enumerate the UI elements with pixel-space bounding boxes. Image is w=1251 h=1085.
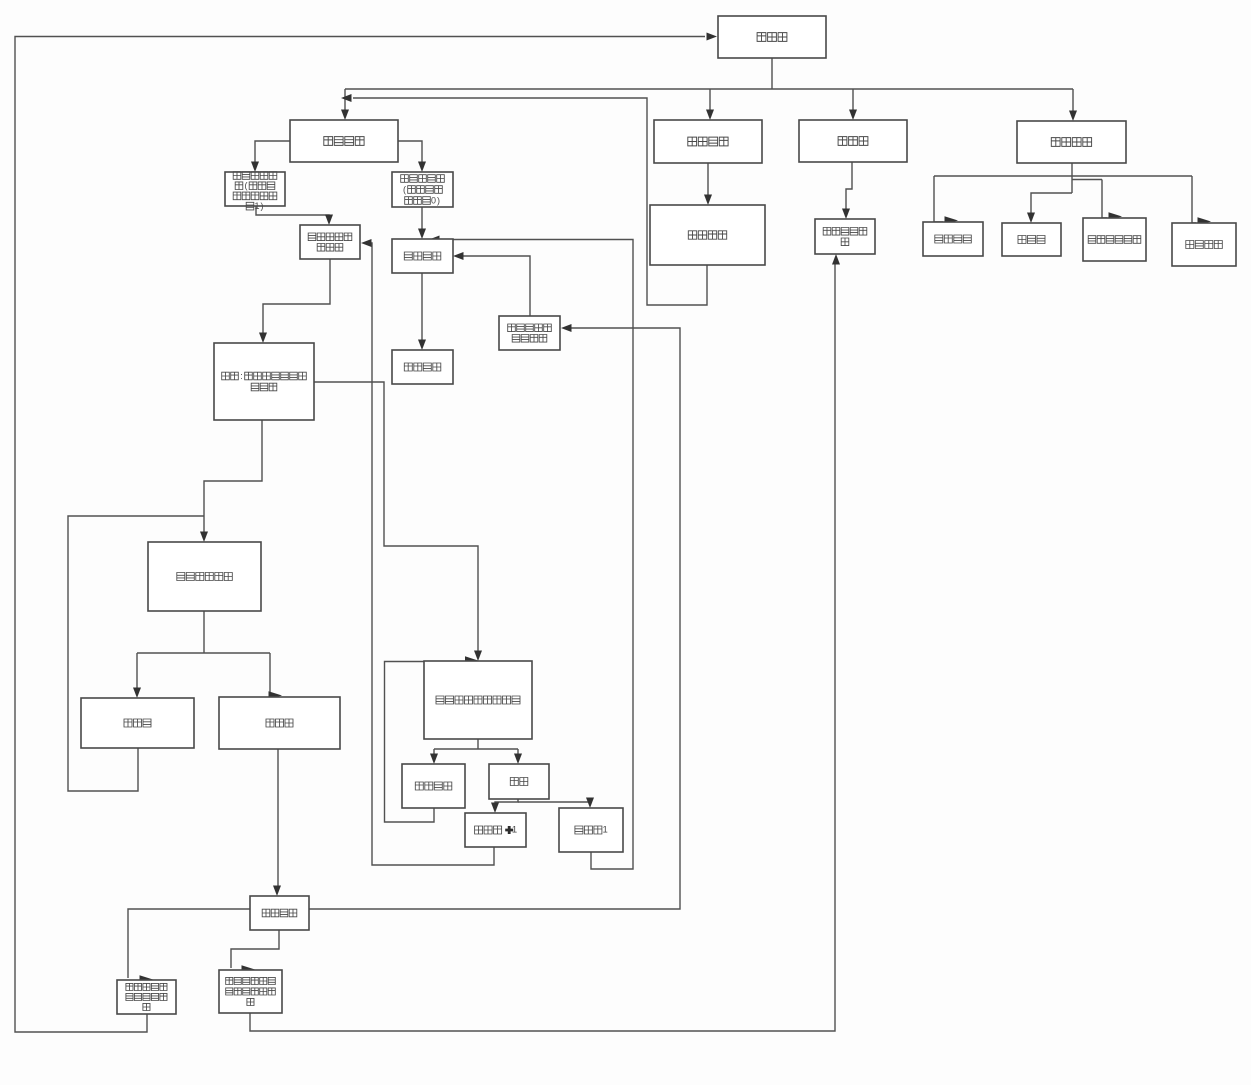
wire 读取分数->显示得分 [128, 909, 250, 984]
box 判断是否碰撞 [148, 542, 261, 611]
box 显示得分和历史最高纪录 [117, 980, 176, 1014]
box 判断食物是否还存在 [424, 661, 532, 739]
box 继续游戏 [654, 120, 762, 163]
wire 设置选项 stem [1071, 163, 1073, 193]
wire ->排行榜 [849, 89, 857, 120]
wire 若吃->分数加1 [518, 798, 594, 809]
wire 主菜单 bottom stem [771, 58, 773, 89]
wire 分数加1->统计分数 loop [429, 236, 633, 870]
box 一直通过键盘判断移动方向 [214, 343, 314, 420]
wire 若没有吃->判断食物 loop [385, 656, 479, 822]
box 排行榜 [799, 120, 907, 162]
wire 统计分数->显示分数 [418, 273, 426, 350]
wire 终止统计->统计分数 [453, 252, 530, 316]
wire 统计蛇长度和位置->一直判断方向 [259, 259, 330, 343]
wire 若碰撞->读取分数 [273, 749, 281, 896]
wire 若没有->判断是否碰撞 loop [68, 516, 204, 791]
wire 开始游戏->初始化蛇长度 [251, 141, 290, 172]
wire 开始游戏->初始化分数 [398, 141, 426, 172]
wire settings rail lower [1072, 179, 1102, 181]
wire ->蛇皮肤 [1027, 193, 1072, 223]
box 主菜单 [718, 16, 826, 58]
box 开始游戏 [290, 120, 398, 162]
wire 初始化分数->统计分数 [418, 207, 426, 239]
wire ->地图切换 [1192, 176, 1211, 226]
box 显示最高纪录 [815, 219, 875, 254]
svg-text:): ) [261, 201, 264, 211]
wire 若吃->蛇长度加1 [491, 799, 518, 813]
wire 显示得分->主菜单 big loop [15, 33, 717, 1033]
wire 排行榜->显示最高纪录 [842, 162, 852, 219]
wire ->游戏难易程度 [1102, 180, 1122, 221]
svg-text:0: 0 [431, 196, 436, 206]
box 若没有 [81, 698, 194, 748]
svg-text:): ) [437, 196, 440, 206]
wire 读取分数->和最高纪录比较 [231, 930, 279, 974]
svg-text:(: ( [245, 181, 248, 191]
svg-text:(: ( [403, 185, 406, 195]
wire ->设置选项 [1069, 89, 1077, 121]
box 若碰撞 [219, 697, 340, 749]
svg-text::: : [240, 371, 243, 381]
svg-text:1: 1 [254, 201, 259, 211]
wire ->继续游戏 [706, 89, 714, 120]
wire 蛇长度加1->统计蛇长度 loop [361, 239, 494, 865]
wire ->游戏声音 [934, 176, 958, 225]
wire 初始化蛇长度->统计蛇长度和位置 [256, 206, 333, 225]
box 读取存档 [650, 205, 765, 265]
wire ->开始游戏 [341, 89, 349, 120]
box 读取分数 [250, 896, 309, 930]
box 蛇皮肤 [1002, 223, 1061, 256]
box 游戏难易程度 [1083, 218, 1146, 261]
wire 判断是否碰撞 branch [133, 611, 282, 700]
box 蛇长度加1 [465, 813, 526, 847]
wire 继续游戏->读取存档 [704, 163, 712, 205]
wire 读取分数->终止统计 [309, 324, 680, 909]
box 分数加1 [559, 808, 623, 852]
svg-text:1: 1 [603, 825, 608, 836]
box 设置选项 [1017, 121, 1126, 163]
box 游戏声音 [923, 222, 983, 256]
wire 读取存档->开始游戏 loop [341, 94, 707, 305]
box 若没有吃 [402, 764, 465, 808]
box 地图切换 [1172, 223, 1236, 266]
box 终止统计并停止显示 [499, 316, 560, 350]
wire main menu rail [345, 88, 1073, 90]
wire 判断食物 branch [430, 739, 522, 764]
box 统计蛇长度和位置 [300, 225, 360, 259]
box 初始化蛇长度 [225, 172, 285, 211]
box 统计分数 [392, 239, 453, 273]
wire 一直判断方向->判断食物是否还存在 [314, 382, 482, 661]
box 若吃 [489, 764, 549, 799]
svg-text:1: 1 [512, 825, 517, 836]
wire 和最高纪录比较->显示最高纪录 [250, 254, 840, 1031]
wire settings rail [934, 175, 1192, 177]
box 和最高纪录比较若高则取代之 [219, 970, 282, 1013]
box 初始化分数 [392, 172, 453, 207]
wire 一直判断方向->判断是否碰撞 [200, 420, 262, 542]
box 显示分数 [392, 350, 453, 384]
